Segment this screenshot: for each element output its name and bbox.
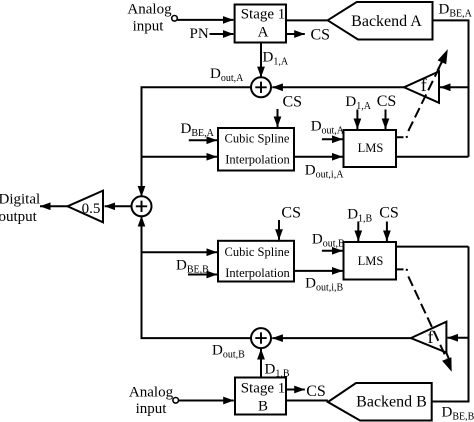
svg-text:input: input <box>133 18 165 34</box>
svg-text:CS: CS <box>281 205 301 222</box>
svg-text:CS: CS <box>283 94 303 111</box>
svg-text:Stage 1: Stage 1 <box>241 380 286 396</box>
svg-text:CS: CS <box>306 383 326 400</box>
svg-text:A: A <box>258 25 269 41</box>
svg-text:CS: CS <box>379 204 399 221</box>
svg-text:Cubic Spline: Cubic Spline <box>225 245 290 259</box>
svg-text:CS: CS <box>377 93 397 110</box>
svg-text:LMS: LMS <box>358 254 384 268</box>
svg-text:Cubic Spline: Cubic Spline <box>225 132 290 146</box>
svg-text:Backend B: Backend B <box>356 393 427 410</box>
svg-text:CS: CS <box>311 27 331 44</box>
svg-text:Interpolation: Interpolation <box>225 153 290 167</box>
svg-text:Backend A: Backend A <box>351 13 422 30</box>
svg-text:f: f <box>428 327 434 347</box>
svg-text:Stage 1: Stage 1 <box>241 7 286 23</box>
svg-text:input: input <box>136 401 168 417</box>
svg-text:f: f <box>421 75 427 95</box>
svg-text:Analog: Analog <box>127 2 172 18</box>
svg-text:0.5: 0.5 <box>82 201 101 217</box>
svg-text:Analog: Analog <box>129 385 174 401</box>
svg-text:PN: PN <box>190 26 209 42</box>
svg-text:B: B <box>258 399 268 415</box>
svg-text:output: output <box>0 209 38 225</box>
svg-text:LMS: LMS <box>358 141 384 155</box>
svg-text:Interpolation: Interpolation <box>225 266 290 280</box>
svg-text:Digital: Digital <box>0 191 40 207</box>
